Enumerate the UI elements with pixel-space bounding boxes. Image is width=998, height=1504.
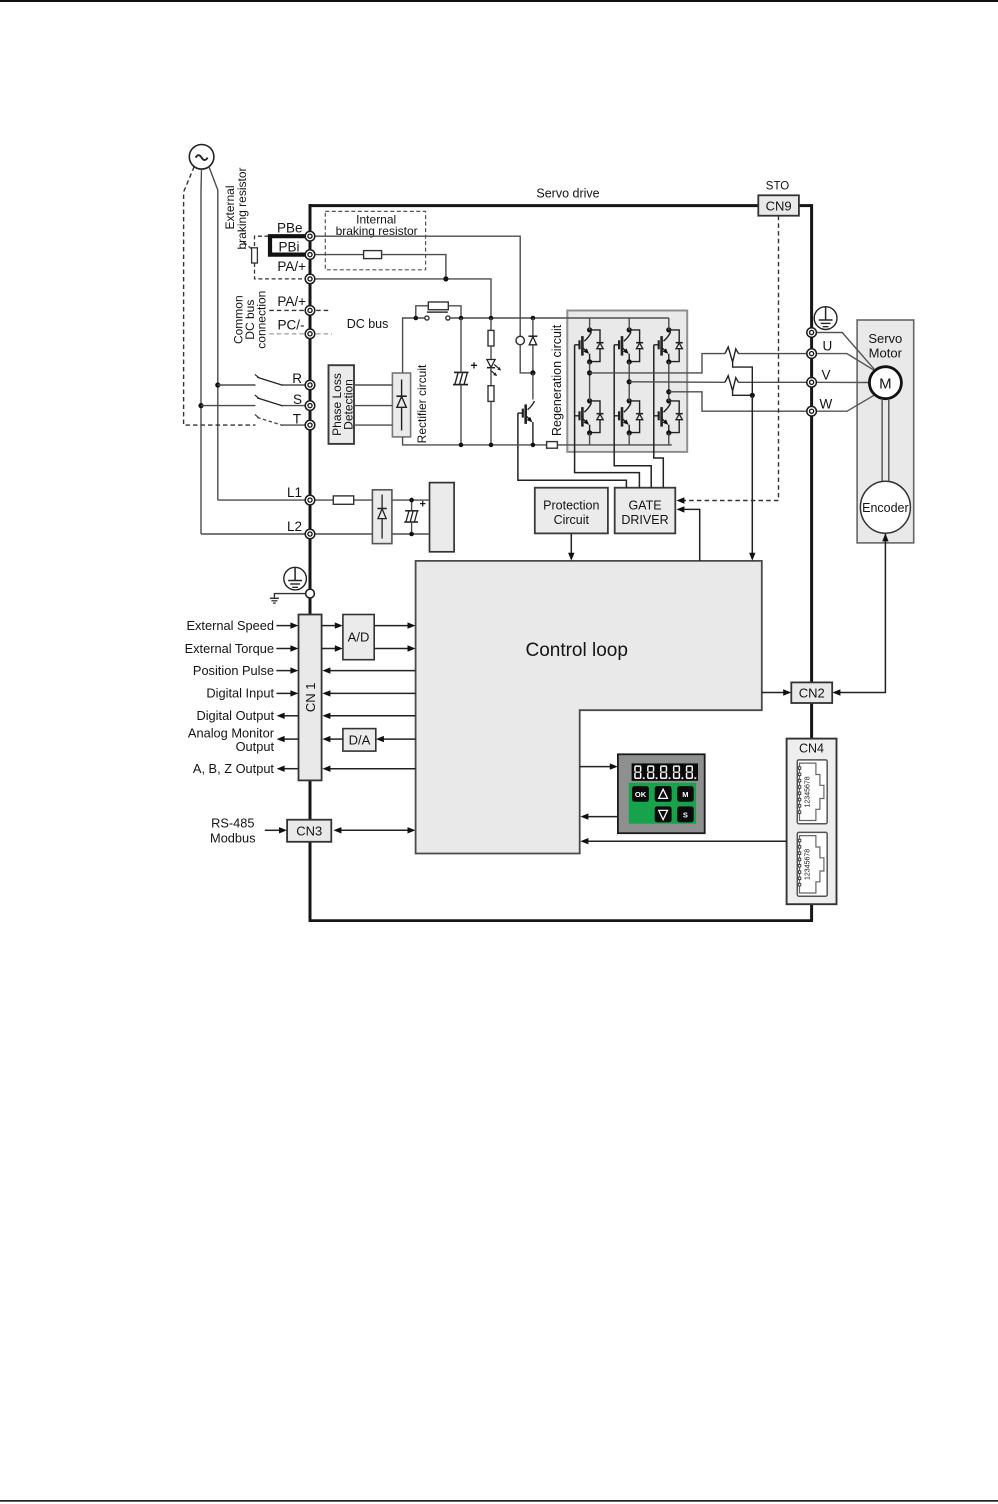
- wire A/D to control loop row1: [374, 622, 415, 628]
- label External braking resistor: [223, 167, 249, 249]
- terminal L2: [305, 529, 315, 539]
- ground node circle: [306, 589, 315, 598]
- terminal R: [305, 380, 315, 390]
- terminal T: [305, 420, 315, 430]
- wire CN1 to A/D row2: [322, 645, 343, 651]
- U phase sense resistor: [725, 347, 739, 362]
- L2 input wire: [315, 533, 373, 535]
- L1 series resistor: [333, 496, 353, 504]
- aux rectifier diode block: [372, 490, 392, 544]
- svg-text:connection: connection: [254, 291, 268, 349]
- protective earth symbol left: [284, 567, 307, 590]
- svg-text:RS-485: RS-485: [211, 816, 254, 831]
- svg-text:Rectifier circuit: Rectifier circuit: [415, 364, 429, 443]
- label DC bus: [347, 317, 389, 331]
- svg-text:Encoder: Encoder: [862, 501, 909, 515]
- keypad display panel: [618, 754, 705, 833]
- label CN2: [799, 685, 825, 700]
- svg-text:External Speed: External Speed: [186, 618, 274, 633]
- terminal L1: [305, 495, 315, 505]
- svg-text:CN 1: CN 1: [303, 682, 318, 712]
- svg-text:Digital Output: Digital Output: [196, 708, 274, 723]
- wire Digital Input into CN1: [276, 690, 298, 696]
- label RS-485 Modbus: [210, 816, 256, 846]
- svg-text:PA/+: PA/+: [277, 259, 306, 274]
- svg-text:braking resistor: braking resistor: [235, 167, 249, 249]
- svg-text:Output: Output: [236, 739, 275, 754]
- gate driver block: [615, 488, 676, 534]
- current sense tails to control loop: [733, 362, 753, 395]
- wire display to control loop: [580, 813, 618, 819]
- svg-text:PA/+: PA/+: [277, 294, 306, 309]
- CN4 jack 1: [797, 760, 827, 824]
- svg-text:V: V: [822, 367, 831, 382]
- node aux junctions: [409, 498, 414, 536]
- node brake chopper junction: [530, 370, 535, 375]
- button M: [677, 786, 694, 802]
- servo motor block: [857, 320, 914, 543]
- label Rectifier circuit: [415, 364, 429, 443]
- terminal W: [807, 406, 817, 416]
- button S: [677, 806, 694, 822]
- label L1: [287, 485, 302, 500]
- label External Torque: [185, 641, 274, 656]
- control loop to CN2 arrow: [762, 689, 791, 695]
- earth wire from ground node: [270, 594, 306, 604]
- label Internal braking resistor: [336, 212, 418, 238]
- label Digital Output: [196, 708, 274, 723]
- inverter bridge leg 2 lower IGBT: [614, 398, 643, 435]
- svg-text:CN9: CN9: [766, 198, 792, 213]
- svg-text:PC/-: PC/-: [278, 317, 305, 332]
- main bus capacitor: [453, 318, 478, 445]
- svg-text:PBe: PBe: [277, 221, 303, 236]
- D/A converter block: [343, 729, 376, 752]
- terminal earth: [807, 328, 817, 338]
- wire PBi to internal resistor: [315, 254, 364, 256]
- wire External Speed into CN1: [276, 622, 298, 628]
- CN4 jack 2: [797, 832, 827, 896]
- label CN9: [766, 198, 792, 213]
- page top rule: [0, 0, 998, 2]
- svg-text:S: S: [293, 392, 302, 407]
- wire CN1 out Analog Monitor: [277, 736, 299, 742]
- label GATE DRIVER: [621, 499, 668, 527]
- seven segment digits: [634, 765, 696, 779]
- aux diode symbol: [377, 495, 386, 539]
- terminal PA/+ common: [305, 306, 315, 316]
- node PBi-PA junction: [443, 276, 448, 281]
- protection circuit block: [535, 488, 608, 534]
- CN3 connector block: [287, 820, 331, 842]
- wire control loop to D/A: [376, 736, 416, 742]
- svg-text:Regeneration circuit: Regeneration circuit: [550, 324, 564, 436]
- svg-text:R: R: [292, 371, 302, 386]
- svg-text:Control loop: Control loop: [525, 640, 627, 661]
- terminal PBe: [305, 231, 315, 241]
- svg-text:PBi: PBi: [278, 239, 299, 254]
- wire control loop to CN1 row3: [322, 667, 415, 673]
- regeneration circuit block: [567, 311, 687, 452]
- wire control loop to CN1 row7: [322, 766, 415, 772]
- label CN3: [296, 824, 322, 839]
- inrush resistor body: [428, 302, 448, 310]
- wire Position Pulse into CN1: [276, 667, 298, 673]
- protective earth symbol right: [814, 307, 837, 330]
- CN4 connector block: [787, 739, 837, 905]
- brake chopper diode: [528, 318, 537, 373]
- label STO: [766, 180, 789, 192]
- node W phase output: [666, 389, 671, 394]
- svg-text:M: M: [682, 790, 688, 799]
- CN2 connector block: [791, 682, 832, 703]
- svg-text:A/D: A/D: [348, 629, 370, 644]
- svg-text:DRIVER: DRIVER: [621, 513, 668, 527]
- DC bus positive rail: [450, 317, 669, 319]
- external braking resistor body: [252, 248, 258, 263]
- terminal PA/+: [305, 274, 315, 284]
- svg-text:T: T: [293, 411, 301, 426]
- V phase sense resistor: [725, 376, 739, 391]
- aux capacitor: [404, 499, 426, 535]
- protection circuit arrow to control loop: [568, 533, 574, 560]
- wire U phase to terminal: [590, 354, 807, 373]
- wire control loop to CN1 row4: [322, 690, 415, 696]
- rectifier circuit block: [392, 373, 410, 437]
- label PC/-: [278, 317, 305, 332]
- wire control loop to display: [580, 763, 618, 769]
- wire CN1 out Digital Output: [277, 713, 299, 719]
- label Servo Motor: [868, 331, 902, 360]
- svg-text:Protection: Protection: [543, 499, 599, 513]
- svg-text:Analog Monitor: Analog Monitor: [188, 725, 275, 740]
- svg-text:GATE: GATE: [628, 499, 661, 513]
- button OK: [632, 786, 649, 802]
- wire AC to S phase: [201, 169, 306, 534]
- CN9 connector block: [758, 195, 799, 215]
- label L2: [287, 519, 302, 534]
- inverter bridge leg 1 upper IGBT: [575, 327, 604, 364]
- node DC bus junctions: [414, 316, 536, 321]
- terminal PBi: [305, 250, 315, 260]
- CN1 connector block: [299, 615, 322, 781]
- wire A/D to control loop row2: [374, 645, 415, 651]
- label External Speed: [186, 618, 274, 633]
- node U phase output: [587, 370, 592, 375]
- button down: [655, 806, 672, 822]
- inrush resistor branch: [416, 306, 461, 318]
- svg-text:U: U: [823, 339, 833, 354]
- svg-text:Motor: Motor: [869, 345, 903, 360]
- aux DC wires to power supply: [392, 500, 430, 534]
- label Phase Loss Detection: [330, 373, 355, 436]
- svg-text:External Torque: External Torque: [185, 641, 274, 656]
- label PBi: [278, 239, 299, 254]
- wires phase loss to rectifier: [354, 385, 392, 425]
- label D/A: [349, 732, 371, 747]
- svg-text:Servo drive: Servo drive: [536, 187, 599, 201]
- label A, B, Z Output: [193, 761, 275, 776]
- motor V wire: [816, 381, 869, 383]
- internal braking resistor body: [364, 251, 382, 259]
- svg-text:CN2: CN2: [799, 685, 825, 700]
- svg-text:STO: STO: [766, 180, 789, 192]
- brake chopper IGBT Q7: [518, 373, 535, 445]
- svg-text:L2: L2: [287, 519, 302, 534]
- inverter bridge leg 2 upper IGBT: [614, 327, 643, 364]
- svg-text:Digital Input: Digital Input: [206, 686, 274, 701]
- motor M circle: [869, 367, 901, 399]
- encoder feedback wire to CN2: [832, 533, 888, 695]
- label PA/+ (common bus): [277, 294, 306, 309]
- label S: [293, 392, 302, 407]
- label PA/+: [277, 259, 306, 274]
- svg-text:Servo: Servo: [868, 331, 902, 346]
- svg-text:S: S: [683, 810, 688, 819]
- wire control loop to CN1 row5: [322, 713, 415, 719]
- brake relay contact circle: [516, 336, 524, 344]
- wire AC to R phase: [209, 167, 306, 501]
- inrush bypass relay contact: [425, 312, 450, 320]
- wire W phase to terminal: [669, 392, 807, 411]
- svg-text:+: +: [420, 499, 426, 511]
- common DC bus PA/+ dashed stubs: [269, 309, 330, 311]
- label T: [293, 411, 301, 426]
- svg-text:Circuit: Circuit: [554, 513, 590, 527]
- label Position Pulse: [193, 663, 274, 678]
- terminal PC/-: [305, 329, 315, 339]
- PBe-PBi jumper bracket: [270, 236, 305, 254]
- wire External Torque into CN1: [276, 645, 298, 651]
- label Servo drive: [536, 187, 599, 201]
- servo drive enclosure outline: [309, 204, 813, 921]
- bridge gate lines to gate driver: [575, 345, 664, 488]
- S phase input wire and breaker: [198, 395, 305, 408]
- node current sense junction: [750, 393, 755, 398]
- label Analog Monitor Output: [188, 725, 275, 754]
- wire AC to T phase (dashed): [184, 167, 256, 426]
- svg-text:CN4: CN4: [799, 742, 824, 756]
- wire RS-485 into CN3: [265, 827, 287, 833]
- terminal S: [305, 401, 315, 411]
- wire internal resistor to PA node: [382, 255, 446, 279]
- wire brake contact to brake node: [520, 345, 530, 373]
- label U: [823, 339, 833, 354]
- T phase breaker (dashed): [255, 415, 306, 426]
- A/D converter block: [343, 615, 374, 660]
- motor earth wire: [816, 333, 874, 370]
- brake IGBT gate line to gate driver: [518, 413, 627, 488]
- svg-text:Detection: Detection: [341, 379, 355, 430]
- AC source: [189, 145, 214, 170]
- inverter bridge leg 3 lower IGBT: [654, 398, 683, 435]
- wire CN4 to control loop: [580, 838, 786, 844]
- wire rectifier output to DC bus: [403, 318, 425, 373]
- svg-text:L1: L1: [287, 485, 302, 500]
- inverter bridge leg 3 upper IGBT: [654, 327, 683, 364]
- svg-text:OK: OK: [635, 790, 647, 799]
- label CN4: [799, 742, 824, 756]
- label Digital Input: [206, 686, 274, 701]
- motor W wire: [816, 394, 876, 411]
- label R: [292, 371, 302, 386]
- wire CN1 out ABZ: [277, 766, 299, 772]
- current sense feedback arrow into control loop: [749, 395, 755, 560]
- svg-text:CN3: CN3: [296, 824, 322, 839]
- svg-text:DC bus: DC bus: [347, 317, 389, 331]
- common DC bus PC/- dashed stubs: [269, 333, 332, 335]
- inverter bridge leg 1 lower IGBT: [575, 398, 604, 435]
- wire PBe to brake contact: [315, 236, 521, 336]
- phase loss detection block: [329, 365, 355, 444]
- label W: [820, 396, 833, 411]
- label Control loop: [525, 640, 627, 661]
- DC bus negative rail: [403, 437, 672, 445]
- label V: [822, 367, 831, 382]
- gate driver enable line from control loop: [676, 506, 699, 561]
- label Common DC bus connection: [232, 291, 269, 349]
- control loop block: [416, 561, 762, 854]
- L1 input wire: [315, 499, 373, 501]
- terminal U: [807, 349, 817, 359]
- charge indicator branch: [487, 318, 501, 445]
- label Protection Circuit: [543, 499, 599, 527]
- internal braking resistor dashed box: [325, 211, 425, 269]
- node negative rail junctions: [459, 443, 536, 448]
- keypad green area: [629, 783, 696, 824]
- svg-text:A, B, Z Output: A, B, Z Output: [193, 761, 275, 776]
- motor shaft: [882, 399, 889, 482]
- R phase input wire and breaker: [215, 374, 305, 387]
- STO dashed line from CN9 to gate driver: [676, 216, 778, 504]
- wire CN1 to A/D row1: [322, 622, 343, 628]
- external braking resistor dashed loop: [244, 236, 306, 279]
- page bottom rule: [0, 1500, 998, 1502]
- svg-text:Modbus: Modbus: [210, 831, 256, 846]
- svg-text:+: +: [471, 359, 478, 373]
- label CN 1: [303, 682, 318, 712]
- svg-text:M: M: [879, 376, 892, 393]
- wire CN3 to control loop bidirectional: [333, 827, 415, 833]
- control power supply block: [430, 483, 455, 552]
- wire V phase to terminal: [629, 381, 807, 384]
- wire D/A to CN1: [322, 736, 343, 742]
- label Regeneration circuit: [550, 324, 564, 436]
- encoder: [860, 481, 910, 533]
- svg-text:D/A: D/A: [349, 732, 371, 747]
- motor U wire: [816, 354, 876, 372]
- label A/D: [348, 629, 370, 644]
- terminal V: [807, 378, 817, 388]
- bridge leg connection stubs: [590, 318, 669, 445]
- button up: [655, 786, 672, 802]
- svg-text:W: W: [820, 396, 833, 411]
- svg-text:Position Pulse: Position Pulse: [193, 663, 274, 678]
- wire PA/+ to DC bus: [315, 279, 492, 318]
- rectifier diode symbol: [396, 380, 406, 431]
- label PBe: [277, 221, 303, 236]
- shunt resistor on negative rail: [547, 442, 558, 449]
- node V phase output: [627, 379, 632, 384]
